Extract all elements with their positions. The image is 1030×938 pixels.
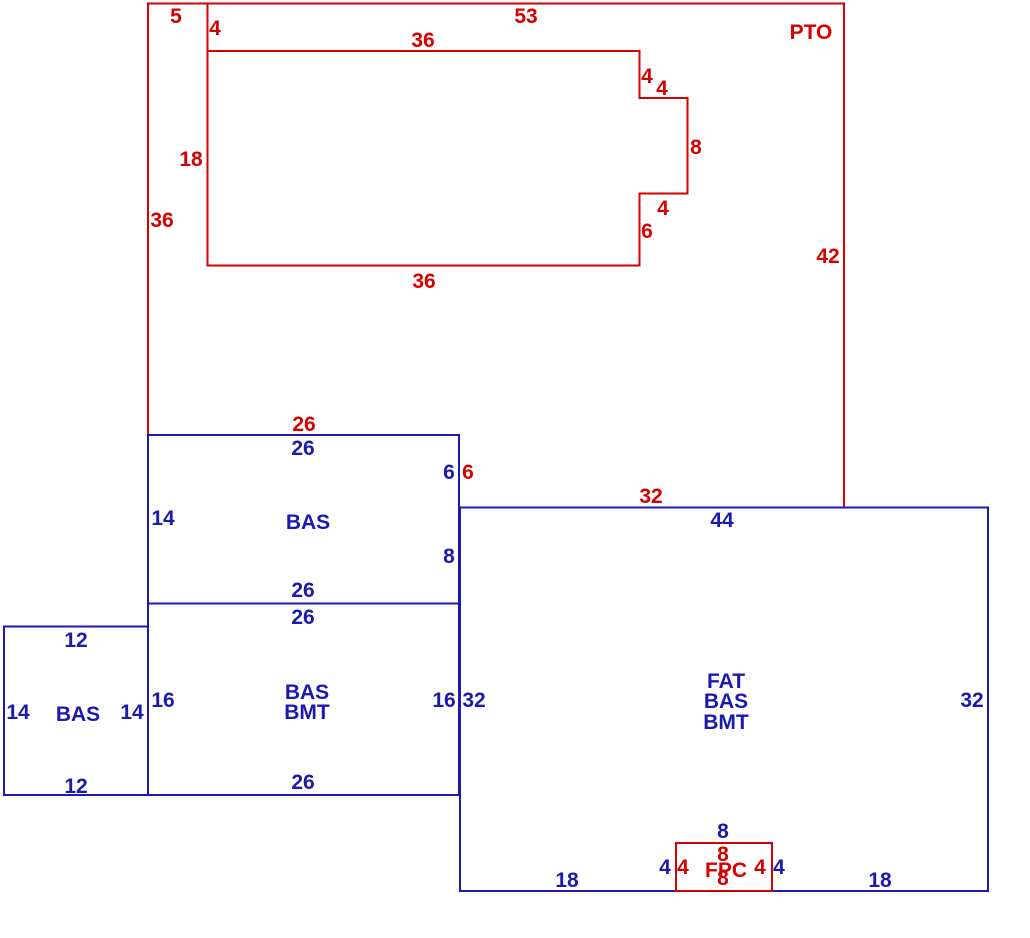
svg-text:36: 36 [150, 209, 173, 232]
FAT BAS BMT room outline [460, 508, 988, 892]
svg-text:4: 4 [209, 17, 221, 40]
svg-text:36: 36 [411, 29, 434, 52]
svg-text:44: 44 [710, 509, 734, 532]
svg-text:8: 8 [717, 867, 729, 890]
svg-text:4: 4 [677, 856, 689, 879]
svg-text:26: 26 [292, 413, 315, 436]
svg-text:14: 14 [6, 701, 30, 724]
svg-text:26: 26 [291, 437, 314, 460]
svg-text:32: 32 [639, 485, 662, 508]
svg-text:14: 14 [120, 701, 144, 724]
svg-text:53: 53 [514, 5, 537, 28]
PTO patio outer outline [148, 4, 844, 508]
svg-text:32: 32 [462, 689, 485, 712]
svg-text:18: 18 [555, 869, 579, 892]
svg-text:4: 4 [656, 77, 668, 100]
svg-text:42: 42 [816, 245, 839, 268]
svg-text:14: 14 [151, 507, 175, 530]
BAS upper room outline [148, 435, 459, 604]
svg-text:12: 12 [64, 629, 87, 652]
svg-text:8: 8 [717, 820, 729, 843]
svg-text:32: 32 [960, 689, 983, 712]
svg-text:26: 26 [291, 606, 314, 629]
svg-text:4: 4 [773, 856, 785, 879]
svg-text:8: 8 [690, 136, 702, 159]
svg-text:26: 26 [291, 771, 314, 794]
svg-text:26: 26 [291, 579, 314, 602]
BAS BMT room outline [148, 604, 459, 796]
svg-text:4: 4 [657, 197, 669, 220]
svg-text:6: 6 [462, 461, 474, 484]
svg-text:5: 5 [170, 5, 182, 28]
svg-text:BAS: BAS [56, 703, 100, 726]
svg-text:BMT: BMT [284, 701, 330, 724]
PTO inner cutout notched rectangle [208, 51, 688, 266]
svg-text:6: 6 [443, 461, 455, 484]
svg-text:4: 4 [659, 856, 671, 879]
svg-text:BAS: BAS [286, 511, 330, 534]
svg-text:16: 16 [432, 689, 455, 712]
svg-text:6: 6 [641, 220, 653, 243]
svg-text:BAS: BAS [704, 690, 748, 713]
svg-text:18: 18 [179, 148, 203, 171]
svg-text:16: 16 [151, 689, 174, 712]
svg-text:BMT: BMT [703, 711, 749, 734]
svg-text:4: 4 [641, 65, 653, 88]
small BAS room outline [4, 627, 148, 796]
svg-text:12: 12 [64, 775, 87, 798]
svg-text:4: 4 [754, 856, 766, 879]
svg-text:18: 18 [868, 869, 892, 892]
svg-text:PTO: PTO [790, 21, 833, 44]
svg-text:8: 8 [443, 545, 455, 568]
PTO slit wire at x=207 [207, 4, 209, 52]
svg-text:36: 36 [412, 270, 435, 293]
FPC porch outline [676, 843, 772, 891]
